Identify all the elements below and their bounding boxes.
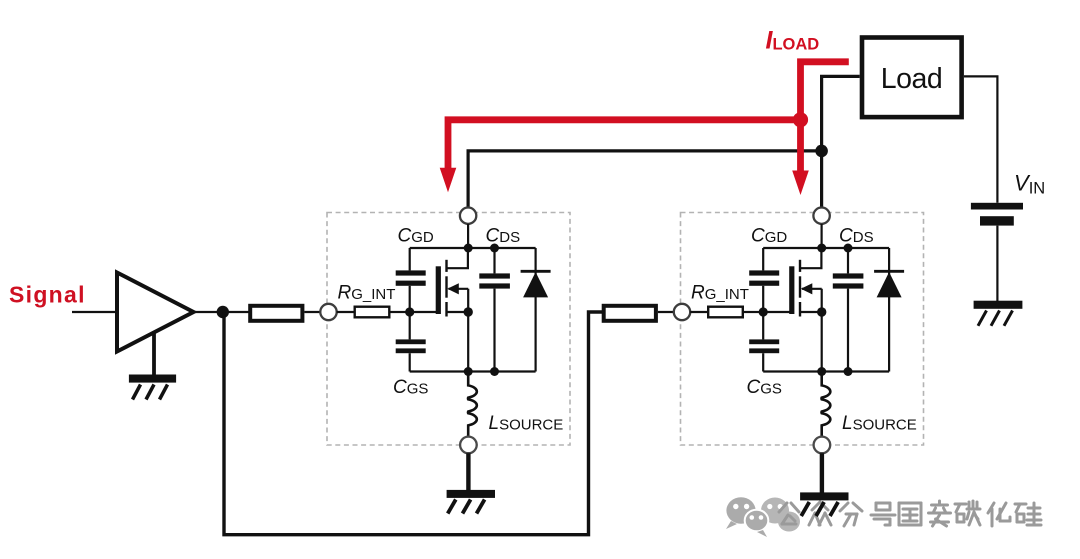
node gate terminal 2	[674, 304, 690, 320]
wire drain net (load to MOSFET drains)	[822, 76, 860, 207]
svg-text:Load: Load	[881, 63, 942, 95]
terminal drain 1	[460, 208, 476, 224]
wire top rail 2	[763, 247, 889, 249]
wire source to ground 1	[466, 453, 470, 491]
wire source to ground 2	[820, 453, 824, 493]
svg-text:CGS: CGS	[393, 377, 428, 398]
node gate 1	[405, 307, 414, 316]
ground (driver)	[152, 333, 156, 376]
MOSFET model dashed box 1	[327, 213, 570, 446]
wire gate lead 2	[763, 311, 789, 313]
node source rail 1	[464, 367, 473, 376]
capacitor C_GD2	[749, 270, 779, 275]
wire 2	[744, 311, 760, 313]
wire ILOAD from load (red)	[801, 62, 849, 173]
capacitor C_GS1	[396, 339, 426, 344]
resistor R_G_INT1	[355, 307, 390, 318]
wire 2	[658, 311, 674, 313]
wire signal input	[72, 311, 116, 313]
capacitor C_GS2	[749, 339, 779, 344]
resistor R_G_INT2	[708, 307, 743, 318]
wire load to Vin	[964, 76, 998, 202]
capacitor C_DS1	[493, 248, 495, 273]
wire bottom rail 2	[763, 370, 889, 372]
node drain rail 2	[817, 244, 826, 253]
battery VIN	[971, 203, 1023, 210]
transistor Q1	[436, 266, 441, 314]
terminal source 2	[814, 437, 831, 454]
MOSFET model dashed box 2	[681, 213, 924, 446]
svg-text:LSOURCE: LSOURCE	[842, 413, 917, 434]
svg-text:CGD: CGD	[751, 226, 787, 247]
node ILOAD junction (red)	[793, 112, 808, 127]
inductor L_SOURCE1	[468, 372, 477, 437]
wire 2	[690, 311, 708, 313]
node drain rail 1	[464, 244, 473, 253]
ground (Vin)	[974, 301, 1023, 309]
load block	[862, 38, 962, 118]
watermark wechat icon 1	[726, 497, 755, 523]
wire drain terminal to rail 2	[820, 224, 822, 248]
node gate terminal 1	[320, 304, 336, 320]
ground (MOSFET source 1)	[447, 490, 495, 498]
wire 1	[337, 311, 355, 313]
svg-text:CDS: CDS	[839, 226, 874, 247]
wire bottom rail 1	[410, 370, 536, 372]
svg-text:Signal: Signal	[9, 282, 86, 308]
terminal source 1	[460, 437, 477, 454]
op-amp driver buffer U1	[117, 273, 194, 352]
wire driver output	[194, 311, 249, 313]
terminal drain 2	[813, 208, 829, 224]
node drain net junction	[815, 145, 828, 158]
watermark wechat icon 2	[761, 498, 789, 524]
capacitor C_DS2	[847, 248, 849, 273]
svg-text:CDS: CDS	[486, 226, 521, 247]
arrow ILOAD right (red)	[792, 171, 809, 196]
node driver output junction	[217, 306, 229, 318]
wire drain terminal to rail 1	[467, 224, 469, 248]
wire gate-cap branch 1	[409, 248, 411, 270]
wire gate distribution loop	[224, 312, 604, 535]
svg-text:RG_INT: RG_INT	[338, 283, 396, 304]
diode body D1	[534, 248, 536, 372]
watermark text	[779, 503, 787, 512]
transistor Q2	[789, 266, 794, 314]
ground (MOSFET source 2)	[800, 492, 848, 500]
wire gate lead 1	[410, 311, 436, 313]
wire ILOAD to left MOSFET (red)	[448, 120, 801, 170]
watermark wechat icon 1 small bubble	[745, 510, 769, 532]
wire 1	[304, 311, 320, 313]
svg-text:CGD: CGD	[398, 226, 434, 247]
inductor L_SOURCE2	[822, 372, 831, 437]
svg-text:RG_INT: RG_INT	[691, 283, 749, 304]
wire 1	[391, 311, 407, 313]
arrow ILOAD left (red)	[440, 168, 457, 193]
svg-text:CGS: CGS	[747, 377, 782, 398]
node gate 2	[759, 307, 768, 316]
node source rail 2	[817, 367, 826, 376]
resistor external gate R_EXT1	[250, 306, 302, 321]
resistor external gate R_EXT2	[604, 306, 656, 321]
wire battery to ground	[996, 226, 998, 301]
wire gate-cap branch 2	[762, 248, 764, 270]
wire top rail 1	[410, 247, 536, 249]
svg-text:LSOURCE: LSOURCE	[489, 413, 564, 434]
capacitor C_GD1	[396, 270, 426, 275]
diode body D2	[888, 248, 890, 372]
